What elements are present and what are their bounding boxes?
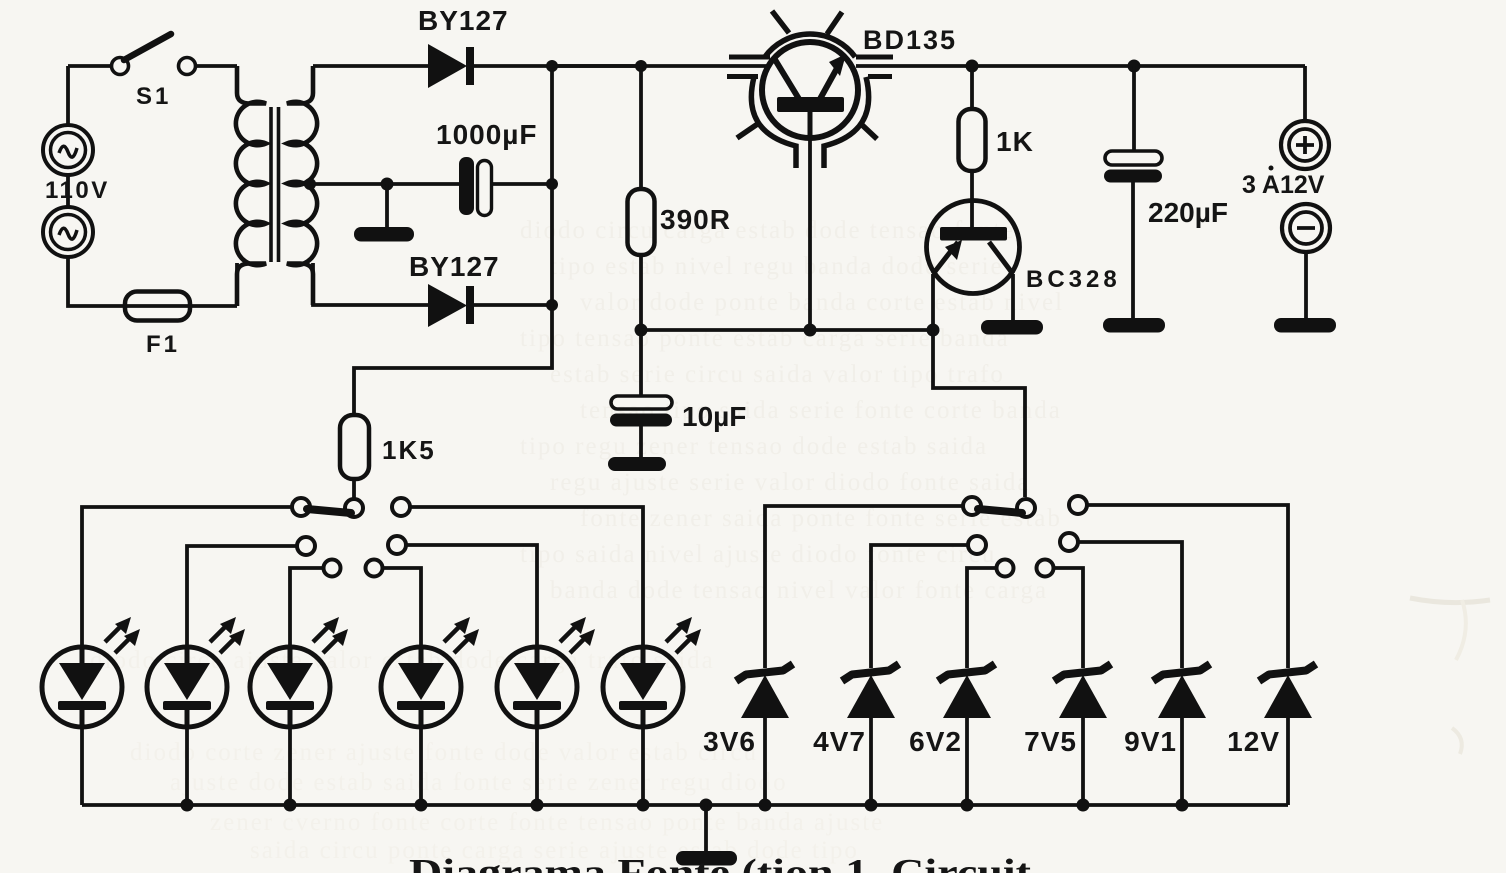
svg-text:1K: 1K [996,126,1034,157]
wire zener 9V1 bottom lead [1180,718,1184,805]
transformer T1 primary winding [236,66,266,306]
wire top rail BD135 to right [856,64,1305,68]
svg-text:banda dode tensao nivel valor: banda dode tensao nivel valor fonte carg… [550,577,1048,604]
LED D8 [603,617,701,727]
wire center tap [311,182,459,186]
terminal - output [1282,204,1330,252]
node B junction [546,299,558,311]
wire base rail horizontal [641,328,934,332]
node LED5 on bottom rail [531,799,544,812]
ground bar (transformer center tap) [354,227,414,242]
switch S1 [112,34,196,75]
ground bar under - terminal [1274,318,1336,333]
resistor R1 390R [628,189,655,255]
node zener 6V2 on bottom rail [961,799,974,812]
node center-tap ground junction [381,178,394,191]
zener diode Z5 9V1 [1153,664,1210,718]
wire contact3 to LED3 [290,568,323,648]
wire top-left from AC source to S1 [68,64,112,68]
node C junction [546,178,558,190]
node main ground junction [700,799,713,812]
LED D5 [250,617,348,727]
selector SW2 contact 4 [366,560,383,577]
node LED4 on bottom rail [415,799,428,812]
wire top rail to BD135 [552,64,769,68]
diode D2 BY127 (bottom) [428,284,474,327]
wire secondary bottom to diode D2 [313,263,428,305]
wire SW3 contact1 to zener 3V6 [765,506,963,668]
ground bar under 10uF [608,457,666,471]
wire 10uF bottom lead [639,426,643,458]
resistor R3 1K5 [340,415,369,479]
wire 1K to BC328 base [970,171,974,227]
wire S1 to transformer primary [196,64,237,68]
svg-text:1K5: 1K5 [382,435,436,465]
svg-text:BY127: BY127 [409,251,500,282]
zener diode Z1 3V6 [736,664,793,718]
LED D3 [42,617,140,727]
wire 220uF bottom lead [1131,182,1135,319]
wire zener 4V7 bottom lead [869,718,873,805]
fuse F1 [125,292,237,321]
wire BC328 collector lead [1011,274,1015,321]
zener diode Z6 12V [1259,664,1316,718]
dot above A in 3A12V [1269,166,1274,171]
wire BC328 emitter lead [931,274,935,330]
svg-text:6V2: 6V2 [909,726,962,757]
wire LED4 bottom lead [419,727,423,805]
svg-text:BY127: BY127 [418,5,509,36]
wire left vertical AC loop [68,66,125,306]
svg-text:S1: S1 [136,83,171,110]
svg-text:220µF: 220µF [1148,197,1228,228]
wire SW3 contact2 to zener 4V7 [871,545,968,668]
node 220uF top [1128,60,1141,73]
transformer T1 secondary winding [287,66,317,305]
wire LED1 bottom lead [80,727,84,805]
node 1K top [966,60,979,73]
AC source G1 (upper) [43,125,93,175]
svg-text:7V5: 7V5 [1024,726,1077,757]
wire BD135 base lead [808,140,812,330]
wire SW3 contact5 to zener 9V1 [1078,542,1182,668]
selector SW2 contact 6 [392,498,410,516]
wire ground stub center tap [385,184,389,228]
zener diode Z2 4V7 [842,664,899,718]
transistor Q1 BD135 [727,11,893,168]
selector SW3 common contact [1017,499,1035,517]
wire SW3 contact4 to zener 7V5 [1054,568,1083,668]
node zener 9V1 on bottom rail [1176,799,1189,812]
svg-text:9V1: 9V1 [1124,726,1177,757]
selector SW2 contact 3 [324,560,341,577]
faint scan bleed-through (background texture) [90,217,1490,864]
node D top rail left [546,60,558,72]
wire contact6 to LED6 [410,507,643,648]
capacitor C2 10uF [610,396,672,427]
wire LED2 bottom lead [185,727,189,805]
wire 1K5 to selector common [352,479,356,499]
svg-text:10µF: 10µF [682,401,746,432]
capacitor C3 220uF [1104,151,1162,183]
svg-text:390R: 390R [660,204,731,235]
selector SW3 contact 3 [997,560,1014,577]
node LED2 on bottom rail [181,799,194,812]
zener diode Z4 7V5 [1054,664,1111,718]
wire zener 12V bottom lead [1286,718,1290,805]
ground bar under BC328 [981,320,1043,335]
node BD135 base rail [804,324,817,337]
svg-text:12V: 12V [1227,726,1280,757]
wire top rail to + terminal [1303,66,1307,121]
svg-text:zener cverno fonte corte fonte: zener cverno fonte corte fonte tensao po… [210,809,884,836]
diode D1 BY127 (top) [428,44,474,88]
wire bottom rail [82,803,1288,807]
AC source G2 (lower) [43,207,93,257]
wire main ground stub [704,805,708,852]
wire - terminal to ground [1304,252,1308,319]
svg-text:valor dode ponte banda corte e: valor dode ponte banda corte estab nivel [580,289,1064,316]
svg-text:1000µF: 1000µF [436,119,538,150]
wire fuse to transformer primary bottom [235,263,239,306]
LED D6 [381,617,479,727]
svg-text:3V6: 3V6 [703,726,756,757]
svg-text:BD135: BD135 [863,25,957,55]
wire contact1 to LED1 [82,507,292,648]
wire SW3 contact3 to zener 6V2 [967,568,996,668]
wire D2 to node B [474,303,552,307]
selector SW3 contact 1 [963,497,981,515]
svg-text:ajuste dode estab saida fonte: ajuste dode estab saida fonte serie zene… [170,769,788,796]
wire secondary top to diode D1 [313,64,428,68]
node LED6 on bottom rail [637,799,650,812]
selector SW3 wiper lever [978,509,1022,513]
node LED3 on bottom rail [284,799,297,812]
selector SW2 wiper lever [307,509,351,513]
node zener 7V5 on bottom rail [1077,799,1090,812]
wire 390R bottom lead [639,255,643,330]
selector SW3 contact 4 [1037,560,1054,577]
wire LED5 bottom lead [535,727,539,805]
selector SW2 contact 1 [292,498,310,516]
svg-text:regu ajuste serie valor diodo: regu ajuste serie valor diodo fonte said… [550,469,1030,496]
capacitor C1 1000uF [459,157,492,216]
wire SW3 contact6 to zener 12V [1087,505,1288,668]
wire 1K top lead [970,66,974,110]
node zener 4V7 on bottom rail [865,799,878,812]
svg-text:diodo corte zener ajuste fonte: diodo corte zener ajuste fonte dode valo… [130,739,758,766]
svg-text:3 A12V: 3 A12V [1242,171,1325,199]
LED D7 [497,617,595,727]
wire contact2 to LED2 [187,546,297,648]
wire D1 to node A [474,64,644,68]
selector SW3 contact 2 [968,536,986,554]
node center tap on secondary [304,178,316,190]
selector SW3 contact 5 [1060,533,1078,551]
wire contact5 to LED5 [406,545,537,648]
zener diode Z3 6V2 [938,664,995,718]
wire 10uF top lead [639,330,643,397]
svg-text:estab serie circu saida valor: estab serie circu saida valor tipo trafo [550,361,1005,388]
resistor R2 1K [959,109,986,171]
LED D4 [147,617,245,727]
wire 390R top lead [639,66,643,190]
ground bar main (bottom) [676,851,737,866]
node 390R top [635,60,647,72]
transistor Q2 BC328 [927,201,1020,294]
svg-text:tipo regu zener tensao dode es: tipo regu zener tensao dode estab saida [520,433,988,460]
selector SW2 contact 2 [297,537,315,555]
selector SW3 contact 6 [1069,496,1087,514]
terminal + output [1281,121,1329,169]
wire rail jog down to selector common [933,330,1025,497]
svg-text:4V7: 4V7 [813,726,866,757]
svg-text:BC328: BC328 [1026,266,1121,293]
svg-text:F1: F1 [146,331,180,358]
selector SW2 common contact [345,499,363,517]
node BC328 emitter rail [927,324,940,337]
wire zener 7V5 bottom lead [1081,718,1085,805]
wire zener 3V6 bottom lead [763,718,767,805]
node under 390R [635,324,648,337]
wire vertical rectifier output [354,66,552,415]
svg-text:Diagrama Fonte (tion 1.: Diagrama Fonte (tion 1. Circuit [409,852,1031,873]
wire contact4 to LED4 [383,568,421,648]
selector SW2 contact 5 [388,536,406,554]
wire LED6 bottom lead [641,727,645,805]
wire zener 6V2 bottom lead [965,718,969,805]
ground bar under 220uF [1103,318,1165,333]
node zener 3V6 on bottom rail [759,799,772,812]
transformer T1 core [271,107,279,262]
wire LED3 bottom lead [288,727,292,805]
wire 220uF top lead [1132,66,1136,152]
svg-text:110V: 110V [45,177,110,204]
wire C1 to node C [492,182,552,186]
